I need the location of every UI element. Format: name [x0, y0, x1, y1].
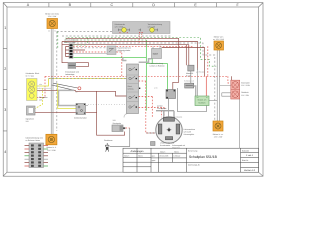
svg-text:Datum: Datum	[160, 150, 166, 153]
label above interrupter/condenser near title block	[151, 142, 174, 148]
svg-text:D: D	[152, 3, 155, 7]
svg-text:Ladeanlage: Ladeanlage	[65, 73, 74, 76]
svg-text:Blatt-Nr.: Blatt-Nr.	[242, 159, 249, 162]
frame top column ticks	[49, 3, 217, 7]
svg-text:Blinker vorn: Blinker vorn	[214, 35, 224, 38]
wire: red dashed stubs from ignition right to vertical x=145.8	[139, 81, 165, 133]
headlight housing (gray box)	[113, 22, 171, 34]
svg-text:G.Bieser: G.Bieser	[173, 155, 180, 158]
wire: gray continuation into green note box	[197, 68, 199, 96]
wire: maroon loop around choke box	[62, 42, 89, 67]
lamp: headlight bulb	[122, 28, 127, 33]
horn box	[26, 106, 36, 123]
choke/Drossel box with stripes	[65, 63, 79, 77]
svg-text:Zeichnungs-Nr.: Zeichnungs-Nr.	[188, 164, 201, 167]
battery/ground green note box	[195, 96, 209, 106]
wire: maroon vertical x=96.7 down to coil bottom	[97, 91, 125, 135]
svg-text:Unterbrecher und: Unterbrecher und	[160, 142, 174, 145]
svg-text:Name: Name	[174, 150, 179, 153]
wire: maroon bus B y=44.7 to ground box pair	[62, 45, 189, 65]
lamp: speedo bulb	[150, 28, 155, 33]
wire: yellow dashed bus y=78.5	[49, 78, 127, 80]
wire: gray dashed bus y=36	[62, 35, 172, 37]
svg-text:Abblendschalter: Abblendschalter	[118, 49, 131, 52]
svg-text:29.04.2008: 29.04.2008	[159, 155, 168, 158]
svg-text:1: 1	[4, 26, 6, 30]
wire: gray ground loop from green box bottom to breaker area	[178, 88, 207, 112]
svg-text:Benennung: Benennung	[188, 150, 197, 153]
svg-text:12V / 35W: 12V / 35W	[115, 25, 124, 28]
closer box (Schliesser)	[184, 80, 194, 88]
wire: maroon step into breaker top-right	[66, 38, 179, 89]
svg-text:Schalterko. Blink.: Schalterko. Blink.	[26, 72, 40, 75]
svg-text:Lichtmaschine: Lichtmaschine	[184, 128, 196, 131]
svg-text:Kabel: Kabel	[153, 53, 159, 56]
breaker box (Unterbrecher)	[154, 87, 176, 99]
svg-text:12V / 21W: 12V / 21W	[47, 149, 56, 152]
frame corner diagonals	[3, 3, 263, 177]
wire: tail light gray stubs	[220, 86, 231, 97]
horn kill switch small box	[107, 46, 131, 55]
wire: yellow dashes from horn to upper	[35, 88, 43, 109]
ignition switch tall box (Zuendschloss)	[127, 64, 141, 114]
wire: gray from breaker down to magneto	[168, 99, 170, 118]
svg-text:Schwunglicht: Schwunglicht	[184, 133, 195, 136]
svg-text:a.d.Schalter: a.d.Schalter	[196, 71, 205, 74]
svg-text:Tachobeleuchtung: Tachobeleuchtung	[148, 23, 163, 26]
title block: Aenderungen section lines	[123, 148, 151, 172]
svg-text:re / li / aus: re / li / aus	[26, 74, 34, 77]
column letters	[27, 3, 240, 7]
wire: gray dashed vertical from blinker VL area down left side	[56, 32, 58, 132]
svg-text:Schaltplan S51/1B: Schaltplan S51/1B	[189, 155, 218, 159]
svg-text:Kabelverbindung vorn: Kabelverbindung vorn	[26, 137, 43, 140]
svg-text:Grundplatte: Grundplatte	[146, 131, 155, 134]
turn signal switch yellow box	[26, 72, 48, 102]
svg-text:12V / 21W: 12V / 21W	[241, 84, 250, 87]
svg-text:Drosselspule und: Drosselspule und	[65, 70, 79, 73]
wire: connector left maroon stubs	[66, 47, 86, 57]
svg-text:Änderungen: Änderungen	[130, 150, 144, 153]
svg-text:Rücklicht: Rücklicht	[241, 91, 249, 94]
svg-text:Blinker vorn links: Blinker vorn links	[45, 13, 59, 16]
svg-text:Zündspule: Zündspule	[113, 122, 121, 125]
svg-text:Signalhorn: Signalhorn	[26, 118, 35, 121]
wire: gray dashed bus y=43 with right step down to rear blinker	[73, 43, 215, 121]
wire: yellow drop to turn-switch box	[37, 79, 49, 87]
wire: gray dashed stub y=47.8	[73, 47, 107, 49]
svg-text:Blinkerschalter: Blinkerschalter	[64, 41, 76, 44]
ground connection box (Masse)	[186, 65, 194, 77]
wire: gray dashed bus y=31.5 to headlight	[57, 31, 113, 33]
svg-text:4: 4	[4, 150, 6, 154]
svg-text:31: 31	[54, 29, 56, 32]
svg-text:re. 12V / 21W: re. 12V / 21W	[213, 38, 224, 41]
svg-text:Lenker zu Rahmen: Lenker zu Rahmen	[150, 64, 165, 67]
wire: horn dotted link	[116, 51, 126, 53]
svg-text:6b: 6b	[48, 29, 50, 32]
svg-text:6b: 6b	[76, 90, 78, 93]
junction ring (red)	[78, 87, 81, 90]
svg-text:Blinker hi. re.: Blinker hi. re.	[213, 133, 224, 136]
svg-text:auf der: auf der	[157, 104, 163, 107]
wire: thick gray from junction down then to dip switch	[59, 90, 77, 105]
wire: blinker VL vertical pair down to blinker rear-left	[51, 29, 53, 135]
svg-text:Magneten: Magneten	[172, 146, 180, 149]
svg-text:Zündkerze: Zündkerze	[104, 139, 113, 142]
svg-text:12V / 5W: 12V / 5W	[241, 94, 249, 97]
wire: red dashed bus D y=46.3	[73, 45, 194, 47]
svg-text:Datum: Datum	[124, 154, 130, 157]
wire: gray from tail light down to title block	[239, 99, 241, 148]
svg-text:12V / 21W: 12V / 21W	[214, 135, 223, 138]
wire: red vertical into green note box	[205, 76, 207, 96]
wire: yellow vertical to dip switch	[58, 84, 76, 109]
frame left row ticks	[3, 48, 7, 131]
svg-text:zu Rahmen hinten: zu Rahmen hinten	[26, 139, 41, 142]
wire: dip switch dotted mechanical link	[88, 104, 126, 106]
wire: red dashed drop to tail light top pin	[228, 76, 231, 83]
svg-text:gepr.: gepr.	[152, 160, 156, 162]
ignition coil box (Zuendspule)	[112, 119, 125, 131]
row numbers	[4, 26, 6, 154]
wire: white/gray wire from switch box	[37, 87, 52, 89]
wire: red dashed pilot lamp legs	[139, 34, 142, 43]
title block: right column rows	[241, 152, 259, 167]
wire: long green vertical x=146.3 down to magneto	[145, 40, 147, 111]
svg-text:Blinkgeber: Blinkgeber	[39, 96, 48, 99]
svg-text:Scheinwerfer: Scheinwerfer	[115, 23, 126, 26]
svg-text:1 von 1: 1 von 1	[246, 154, 254, 157]
wire: gray bar on magneto top with stubs	[156, 111, 174, 119]
wire: green dashed bus y=37.5 across to right side steps	[66, 38, 216, 67]
svg-text:Schwungrad mit: Schwungrad mit	[172, 144, 185, 147]
wire: gray curve at ignition switch bottom	[124, 114, 128, 118]
svg-text:Schließer (U): Schließer (U)	[184, 80, 194, 83]
cable connector box (Kabel)	[150, 46, 165, 68]
title block texts	[124, 149, 256, 172]
svg-text:Kondensator: Kondensator	[160, 144, 171, 147]
terminal strip connector (bottom left)	[25, 137, 49, 168]
wire: gray link green box right to blinker pair	[209, 100, 217, 102]
wire: thick gray ignition to cable box	[139, 59, 152, 63]
wire: maroon C from cable box to right, down	[162, 48, 205, 77]
pilot lamp mini symbol	[139, 29, 141, 32]
wire: thick gray from closer box to green note box	[194, 86, 196, 101]
wire: maroon stub into tail light top	[231, 76, 233, 80]
svg-text:L: L	[39, 86, 40, 89]
lamp: Blinker vorn links (orange)	[45, 13, 59, 33]
frame inner border	[7, 7, 259, 172]
title block: benennung divider	[187, 148, 241, 172]
wire: maroon from switch box to ignition switch junction	[37, 91, 127, 96]
svg-text:12V 42W: 12V 42W	[184, 130, 192, 133]
svg-text:Name: Name	[138, 154, 143, 157]
wire: red dash from coil to plug drop	[126, 127, 130, 129]
svg-text:schloss: schloss	[128, 87, 134, 90]
svg-text:Grundplatte: Grundplatte	[157, 107, 166, 110]
svg-text:Blattzahl: Blattzahl	[242, 149, 249, 152]
wire: gray link ground-box to closer-box	[190, 71, 192, 83]
wire: black diagonal pair from left vertical to junction ring	[52, 83, 78, 90]
wire: red dashed kill-switch vertical x=121.8	[73, 52, 122, 76]
svg-text:Hupenknopf und: Hupenknopf und	[118, 46, 131, 49]
wire: thick gray headlamp return at ignition switch top-left	[123, 57, 127, 61]
svg-text:Masse am: Masse am	[198, 99, 207, 102]
wire: red dashed bus y=76.3 full width	[37, 76, 228, 97]
svg-text:C: C	[110, 3, 113, 7]
wire: gray drop to spark plug	[110, 128, 130, 147]
svg-text:Kabelverbindung: Kabelverbindung	[150, 62, 164, 65]
title block: gez/gepr + datum/name section	[151, 148, 187, 172]
wire: front-right blinker vertical pair down to rear blinker	[217, 50, 219, 121]
lamp: Blinker vorn rechts (orange)	[213, 35, 224, 50]
wire: bright green bus y=57.7 with loop under cable box to breaker	[74, 58, 168, 90]
switch assembly: Lichtschalter connector (black pins)	[64, 39, 78, 59]
wire: green dashed vertical x=57.8	[57, 32, 59, 49]
svg-text:Version 1.0: Version 1.0	[244, 169, 256, 172]
wire: green dashed stub y=45 with vertical x=87.5	[73, 38, 88, 46]
svg-text:Abblendschalter: Abblendschalter	[74, 117, 87, 120]
wire: green dashed branch y=40 to long green vertical	[73, 39, 146, 41]
wire: red dashed vertical x=207.8	[207, 46, 209, 76]
svg-text:gez.: gez.	[152, 156, 156, 158]
svg-text:Bremslicht: Bremslicht	[241, 82, 250, 85]
wire: gray stub to horn button box	[73, 53, 107, 55]
svg-text:3: 3	[4, 108, 6, 112]
svg-text:Rahmen: Rahmen	[198, 101, 205, 104]
frame outer border	[3, 3, 263, 177]
svg-text:U.Br.: U.Br.	[154, 87, 158, 90]
spark plug (Zuendkerze)	[104, 139, 113, 152]
svg-text:49a: 49a	[39, 83, 42, 86]
svg-text:Blinker hi. li.: Blinker hi. li.	[47, 146, 57, 149]
wire: maroon bus A y=41.5 then down right side into battery note box	[62, 42, 198, 71]
svg-text:12V / 21W: 12V / 21W	[48, 15, 57, 18]
tail light unit (salmon, two cells)	[231, 80, 250, 99]
dip switch box (Abblendschalter)	[74, 104, 87, 120]
magneto / flywheel generator circle	[146, 104, 195, 149]
svg-text:2: 2	[4, 67, 6, 71]
lamp: Blinker hinten links (orange, bottom left)	[46, 134, 57, 152]
title block outline	[123, 148, 259, 172]
svg-text:Masse/N.: Masse/N.	[186, 72, 194, 75]
lamp: Blinker hinten rechts (orange, right)	[213, 121, 224, 138]
svg-text:Punkt: Punkt	[186, 75, 191, 78]
wire: maroon from horn y=112.7	[35, 112, 97, 114]
